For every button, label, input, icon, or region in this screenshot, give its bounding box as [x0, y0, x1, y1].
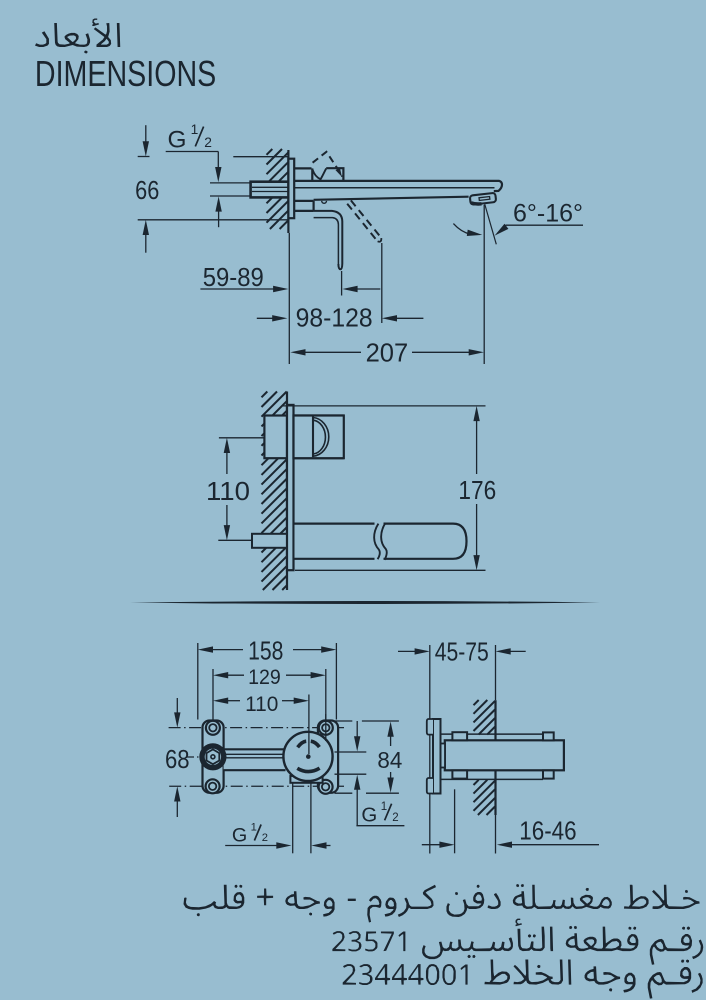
wall plate middle [287, 405, 294, 570]
centerline hub left [186, 756, 201, 758]
wall hatch top drawing [267, 149, 289, 229]
dim 66 bottom line [138, 219, 289, 221]
dim 66 top tick [138, 156, 150, 158]
handle square redraw right part [294, 416, 344, 459]
lever open dashed outline [313, 152, 343, 177]
angle slant line [484, 203, 496, 244]
dim 98-128 arrows [257, 317, 275, 319]
dim 66 down arrow [145, 125, 147, 146]
G1/2 down arrow to pipe [217, 152, 219, 173]
angle arc arrow [453, 224, 470, 235]
dim 84 top tick [335, 720, 353, 722]
svg-text:45-75: 45-75 [435, 638, 489, 666]
svg-text:G: G [361, 804, 377, 826]
dim 59-89 leader + arrows [200, 288, 275, 290]
handle closed outline [314, 211, 343, 269]
cartridge dome swoosh [313, 168, 327, 179]
G1/2 leader underline [166, 151, 219, 153]
wall hatch middle drawing [262, 392, 288, 591]
ext line tube left edge [454, 789, 456, 853]
ext line fixture front [429, 645, 431, 854]
svg-text:1: 1 [381, 801, 387, 813]
circle bottom smile [297, 768, 319, 771]
dim 158 ext lines [197, 643, 199, 720]
svg-text:98-128: 98-128 [296, 304, 373, 332]
svg-text:110: 110 [206, 476, 250, 506]
inlet stub middle [252, 534, 287, 548]
wall face line right [494, 700, 496, 815]
G12 outlet vertical left [292, 783, 294, 853]
svg-text:2: 2 [204, 135, 212, 150]
pipe mid ticks right [335, 751, 367, 753]
side: collar thin lines [441, 733, 544, 735]
dim 66 up arrow [145, 231, 147, 253]
svg-text:DIMENSIONS: DIMENSIONS [35, 53, 216, 94]
left bracket plate [203, 721, 224, 793]
lever open dashed blade [351, 200, 381, 237]
dim 84 bottom tick [335, 792, 353, 794]
side: bottom tabs [452, 770, 467, 778]
body front vertical [313, 201, 315, 211]
wall face line [287, 150, 289, 233]
dim 110 down arrow shaft [226, 505, 228, 530]
pipe top tick [210, 182, 250, 184]
handle inner corner [314, 218, 339, 264]
side: bracket plate edge-on [433, 719, 441, 794]
dim 129 line [213, 672, 228, 678]
side: screw bosses [427, 719, 433, 735]
svg-text:84: 84 [377, 747, 402, 773]
G12 outlet vertical right [310, 783, 312, 853]
plate top tick [233, 156, 288, 158]
product text line 3 [343, 960, 703, 999]
svg-text:110: 110 [245, 693, 278, 716]
pipe bottom tick [210, 195, 250, 197]
side: neck block [441, 744, 446, 768]
ext line to circle center [308, 695, 310, 755]
wall hatch right upper [474, 700, 496, 735]
circle top arc [298, 741, 320, 747]
svg-text:176: 176 [458, 475, 496, 505]
separator line [130, 601, 600, 604]
dim 110 line bottom [213, 698, 228, 704]
svg-text:207: 207 [366, 337, 409, 367]
dim 176 top tick [283, 405, 486, 407]
pipe inner lines [252, 186, 288, 188]
supply pipe G1/2 [251, 182, 289, 198]
dim 207 line [290, 349, 305, 355]
top screw right [319, 721, 333, 735]
arm inner lines [224, 753, 286, 755]
dim 84 shaft [387, 722, 393, 737]
svg-text:2: 2 [262, 832, 268, 844]
dim 68 up arrow [174, 786, 180, 801]
hub hex nut [207, 749, 220, 764]
dim 6-16 leader [506, 224, 584, 226]
spout front view [295, 524, 467, 559]
ext through screw overlay [325, 714, 327, 741]
circle center dot [306, 754, 311, 759]
svg-text:6°-16°: 6°-16° [513, 200, 583, 228]
svg-text:16-46: 16-46 [519, 817, 576, 845]
dim 158 line [198, 646, 213, 652]
wall plate (escutcheon) [288, 159, 294, 219]
cartridge dome stub [311, 168, 313, 180]
title arabic "الأبعاد" [35, 19, 120, 54]
handle crescent chord [312, 417, 314, 458]
joint screw semicircle [322, 201, 327, 203]
spout break marks [375, 522, 384, 561]
faucet body horizontal edges [294, 167, 311, 169]
svg-text:G: G [168, 127, 187, 154]
dim 176 bottom tick [295, 569, 486, 571]
dim 110 bottom tick [218, 539, 252, 541]
concealed body behind wall [264, 416, 342, 459]
dim 110 up arrow shaft [224, 438, 230, 453]
spout underside sloping [314, 197, 469, 200]
wall face line middle [286, 392, 288, 591]
dim 129 ext lines [212, 669, 214, 721]
bottom screw left [206, 779, 220, 793]
ext continues through circle [308, 732, 310, 754]
svg-text:68: 68 [165, 744, 190, 774]
G12 left underline arrow [225, 845, 277, 847]
svg-text:1: 1 [251, 821, 257, 833]
side: top tabs [452, 732, 467, 740]
product text line 2 [332, 919, 703, 965]
top screw left [206, 721, 220, 735]
dim 16-46 line [422, 844, 441, 846]
pipe up arrow [218, 207, 220, 227]
spout inner top line [294, 187, 494, 189]
spout outlet nozzle [470, 193, 496, 205]
centerline top screws [169, 727, 344, 729]
ext line dashed lever tip [381, 243, 383, 323]
side: main tube [445, 740, 564, 770]
svg-text:59-89: 59-89 [203, 264, 264, 292]
ext line wall to 207 [288, 233, 290, 364]
centerline bottom screws [169, 785, 344, 787]
dim 110 top tick [219, 437, 264, 439]
svg-text:66: 66 [135, 175, 159, 205]
ext line wall face vertical [495, 645, 497, 700]
lever open arrow tip [336, 168, 342, 177]
handle crescent arcs [313, 418, 329, 457]
lever cap closed [326, 168, 343, 180]
G12 right underline [356, 825, 404, 827]
svg-text:G: G [232, 825, 247, 847]
hub center dot [211, 755, 215, 759]
svg-text:129: 129 [248, 666, 281, 689]
dim 68 down arrow [176, 698, 178, 717]
ext line nozzle [483, 205, 485, 364]
connecting arm [224, 749, 286, 770]
hub ring [202, 746, 224, 768]
product text line 1 [184, 884, 700, 923]
bottom screw right [319, 780, 333, 794]
spout top edge [294, 181, 502, 191]
ext line handle tip [341, 271, 343, 296]
dim 176 shaft top [473, 406, 479, 421]
dim 45-75 line [398, 650, 417, 652]
svg-text:1: 1 [191, 122, 199, 137]
wall hatch right lower [474, 780, 496, 815]
G12 right shaft arrows [356, 721, 358, 741]
big circle cartridge [283, 732, 332, 781]
svg-text:2: 2 [392, 812, 398, 824]
spout outlet pedestal [290, 776, 322, 783]
right bracket plate [318, 721, 338, 793]
dim 176 shaft bottom [476, 504, 478, 560]
svg-text:158: 158 [248, 638, 283, 666]
dashed blade tip hook [378, 238, 382, 242]
